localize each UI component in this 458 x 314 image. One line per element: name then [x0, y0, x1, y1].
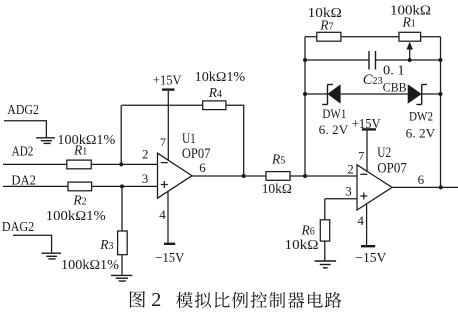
zener diode DW2: [408, 84, 427, 104]
svg-text:DW1: DW1: [322, 107, 346, 121]
svg-text:7: 7: [160, 135, 166, 149]
wire R4 to output node: [226, 105, 244, 176]
wire DA2 to R2: [3, 185, 68, 187]
svg-text:6: 6: [199, 160, 206, 175]
resistor R1: [67, 160, 91, 169]
svg-text:6. 2V: 6. 2V: [319, 123, 349, 137]
svg-text:2: 2: [142, 147, 149, 162]
svg-text:4: 4: [357, 213, 364, 228]
svg-text:7: 7: [358, 149, 364, 163]
svg-text:10kΩ: 10kΩ: [285, 237, 319, 252]
caption 图: [130, 291, 145, 308]
resistor R7: [317, 32, 341, 41]
wire U1 pin4 to -15V: [167, 191, 169, 242]
wire mid rail left segment to C23: [305, 59, 369, 61]
node junction U2 output: [439, 185, 443, 189]
caption 路: [325, 292, 342, 308]
svg-text:OP07: OP07: [377, 160, 407, 176]
ground (DAG2): [41, 253, 61, 259]
node junction U1 output/R4: [242, 174, 246, 178]
caption 例: [232, 292, 248, 308]
capacitor C23 plates: [369, 51, 376, 70]
svg-text:DA2: DA2: [11, 172, 36, 187]
node junction diode rail right: [439, 92, 443, 96]
wire AD2 to R1: [3, 163, 67, 165]
wire R6 to ground: [324, 241, 326, 261]
caption 模: [176, 292, 193, 308]
op-amp U2 minus input sign: [360, 173, 367, 175]
caption 拟: [195, 292, 211, 308]
resistor R5: [266, 172, 290, 181]
svg-text:6. 2V: 6. 2V: [406, 127, 436, 141]
svg-text:+15V: +15V: [352, 117, 381, 132]
svg-text:OP07: OP07: [182, 146, 211, 162]
caption 制: [269, 292, 285, 308]
svg-text:−15V: −15V: [355, 251, 386, 266]
node junction pin2/feedback: [119, 162, 123, 166]
ground (R6): [315, 261, 337, 268]
node junction wiper base: [408, 58, 412, 62]
wire top rail to R7: [305, 36, 317, 38]
caption 电: [308, 292, 323, 308]
wire U2 pin3: [325, 198, 357, 200]
node junction mid rail right: [439, 58, 443, 62]
op-amp U2 plus input sign: [360, 193, 367, 200]
svg-text:−15V: −15V: [155, 251, 184, 266]
svg-text:DW2: DW2: [409, 110, 433, 124]
wire ADG2 lead: [4, 121, 46, 132]
node junction R5/top-network: [303, 174, 307, 178]
svg-text:+15V: +15V: [153, 74, 182, 89]
pot wiper arrowhead: [407, 42, 413, 50]
power +15V bar (U1): [162, 88, 175, 90]
potentiometer R1 body: [399, 32, 421, 41]
wire feedback horizontal to R4: [122, 104, 203, 106]
wire R5 to U2 pin2: [290, 175, 357, 177]
wire feedback vertical: [120, 105, 122, 164]
wire R7 to R1 pot: [341, 36, 399, 38]
node junction pin3/R3: [120, 184, 124, 188]
svg-text:100kΩ1%: 100kΩ1%: [61, 258, 119, 273]
svg-text:6: 6: [418, 172, 425, 187]
svg-text:ADG2: ADG2: [7, 102, 39, 117]
power +15V bar (U2): [362, 128, 376, 130]
power -15V bar (U2): [361, 245, 375, 247]
wire left vertical of feedback network: [304, 37, 306, 176]
wire +15V to U2 pin7: [366, 131, 368, 173]
op-amp U2 triangle: [357, 165, 392, 210]
svg-text:U2: U2: [377, 145, 391, 161]
wire pin3 down to R6: [324, 199, 326, 220]
wire junction to R3: [121, 186, 123, 231]
wire right vertical of feedback network: [440, 37, 442, 188]
resistor R4: [203, 101, 226, 110]
node junction mid rail left: [303, 58, 307, 62]
wire DAG2 lead: [13, 235, 52, 253]
wire R3 to ground: [121, 255, 123, 276]
caption 器: [288, 292, 305, 308]
wire pot wiper arrow stem: [409, 48, 411, 61]
zener diode DW1: [322, 84, 340, 104]
wire U2 pin4 to -15V: [366, 204, 368, 245]
wire R1 pot to right vertical: [421, 36, 441, 38]
svg-text:10kΩ1%: 10kΩ1%: [195, 70, 246, 85]
svg-text:100kΩ1%: 100kΩ1%: [46, 209, 106, 224]
node ADG2 label: [0, 0, 1, 1]
svg-text:3: 3: [345, 183, 352, 198]
power -15V bar (U1): [164, 243, 175, 245]
op-amp U1 plus input sign: [161, 181, 168, 188]
wire C23 to right vertical: [376, 59, 441, 61]
svg-text:CBB: CBB: [383, 79, 407, 94]
svg-text:2: 2: [347, 162, 354, 177]
svg-text:DAG2: DAG2: [2, 219, 34, 234]
wire diode rail left segment: [305, 93, 328, 95]
wire between DW1 and DW2: [341, 93, 408, 95]
wire +15V to U1 pin7: [167, 91, 169, 160]
resistor R6: [320, 220, 329, 241]
ground (ADG2): [36, 132, 55, 144]
ground (R3): [111, 275, 132, 281]
svg-text:2: 2: [151, 289, 161, 311]
svg-text:U1: U1: [182, 131, 196, 147]
wire U2 output: [392, 186, 458, 188]
wire R1 to U1 pin2: [91, 163, 157, 165]
op-amp U1 minus input sign: [161, 162, 168, 164]
svg-text:4: 4: [159, 207, 166, 222]
wire U1 output to R5: [192, 175, 266, 177]
resistor R2: [68, 182, 92, 191]
caption 比: [215, 292, 230, 308]
svg-text:10kΩ: 10kΩ: [262, 181, 292, 196]
wire DW2 to right vertical: [422, 93, 441, 95]
svg-text:3: 3: [142, 171, 149, 186]
wire R2 to U1 pin3: [92, 185, 158, 187]
caption 控: [250, 292, 267, 308]
node junction diode rail left: [303, 92, 307, 96]
svg-text:0. 1: 0. 1: [383, 62, 405, 77]
resistor R3: [118, 231, 128, 255]
op-amp U1 triangle: [158, 153, 193, 198]
svg-text:AD2: AD2: [12, 144, 34, 159]
